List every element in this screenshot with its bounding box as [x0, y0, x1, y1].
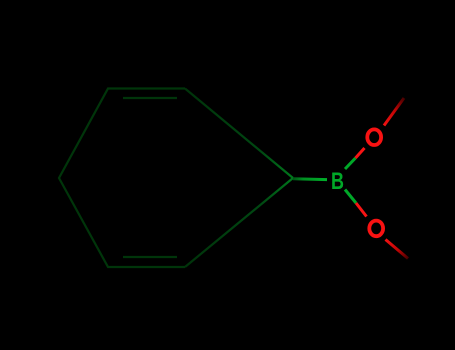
svg-text:B: B — [331, 168, 344, 195]
